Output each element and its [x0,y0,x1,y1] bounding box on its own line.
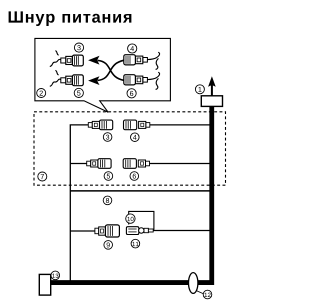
arrow from 6 to 3 (tail) [98,60,124,80]
label circle 5 (block) [104,172,113,181]
label circle 6 (inset) [127,89,136,98]
loop ellipse 12 [189,273,198,294]
label circle 5 (inset) [74,88,83,97]
connector 3 (inset, facing right) [50,51,84,67]
label circle 4 (block) [131,133,140,142]
label circle 7 [38,172,47,181]
label circle 11 [131,239,140,248]
label circle 3 (block) [103,133,112,142]
dashed connector-block outline 7 [34,112,226,185]
connector 6 (block, facing left) [123,159,149,169]
up arrow above unit [211,84,213,96]
connector 5 (block, facing right) [87,159,111,169]
wire row 8 [70,190,209,192]
terminal rectangle 13 [39,274,50,295]
pointer line to label 12 [196,291,204,294]
wire row 11 right segment [153,230,210,232]
wire bus vertical with row1 elbow [70,125,88,282]
label circle 3 (inset) [74,43,83,52]
arrow from 6 to 3 (head) [88,56,99,65]
connector 9 (facing right, large) [95,225,120,237]
wire fold bracket 10 [129,211,154,230]
connector 5 (inset, facing right) [50,70,84,86]
connector 11 (inline bullet pair) [126,227,153,235]
connector 3 (block, facing right) [88,120,112,130]
title: Шнур питания [9,11,132,26]
connector 4 (block, facing left) [124,120,150,130]
label circle 1 [195,85,204,94]
connector 4 (inset, facing left) [124,52,160,69]
label circle 12 [203,290,212,299]
wire row1 right segment [150,124,210,126]
inset detail box with callout pointer [35,38,171,112]
label circle 4 (inset) [128,44,137,53]
thick power lead (vertical + bottom horizontal) [50,106,212,282]
arrow from 4 to 5 (head) [88,76,99,85]
wire row 9 branch [70,230,95,232]
connector 6 (inset, facing left) [124,72,160,89]
unit rectangle 1 [201,96,222,107]
label circle 9 [104,241,113,250]
label circle 8 [103,196,112,205]
label circle 10 [126,214,135,223]
wire row2 right segment [150,163,210,165]
wire row2 branch [70,163,86,165]
label circle 2 (inset box) [37,89,46,98]
label circle 13 [51,271,60,280]
arrow from 4 to 5 (tail) [98,60,124,80]
label circle 6 (block) [130,172,139,181]
